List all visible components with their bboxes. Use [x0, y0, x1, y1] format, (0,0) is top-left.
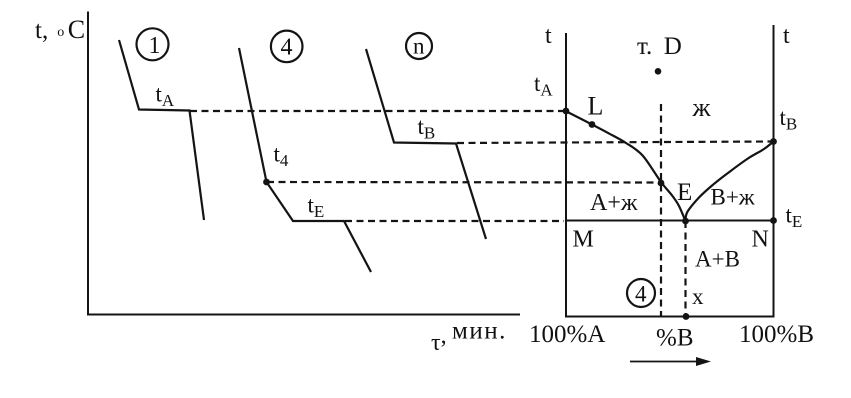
svg-text:tB: tB — [418, 114, 436, 143]
svg-text:τ,: τ, — [431, 323, 447, 356]
point L — [589, 121, 596, 128]
liquidus B side — [685, 142, 773, 221]
svg-text:t,oC: t,oC — [35, 15, 85, 44]
svg-text:tB: tB — [780, 105, 798, 134]
svg-text:L: L — [588, 92, 604, 121]
composition direction arrow — [630, 361, 699, 363]
svg-text:n: n — [413, 34, 425, 59]
svg-text:4: 4 — [281, 35, 293, 61]
svg-text:Е: Е — [677, 179, 692, 206]
svg-text:4: 4 — [635, 282, 647, 307]
svg-text:tE: tE — [308, 193, 325, 222]
svg-text:N: N — [752, 227, 769, 253]
svg-text:tA: tA — [156, 82, 175, 111]
cooling curve 1 — [119, 40, 204, 220]
point E — [682, 218, 689, 225]
svg-text:1: 1 — [149, 33, 161, 59]
svg-text:А+В: А+В — [695, 247, 740, 272]
point D — [655, 68, 662, 75]
svg-text:x: x — [692, 284, 704, 309]
svg-text:В+ж: В+ж — [711, 185, 755, 210]
composition axis (right panel bottom) — [565, 316, 775, 318]
left axis 100%A (right panel) — [565, 33, 567, 317]
svg-text:А+ж: А+ж — [590, 190, 638, 216]
cooling curve n — [366, 49, 486, 239]
svg-text:100%А: 100%А — [529, 321, 605, 348]
svg-text:tA: tA — [534, 71, 553, 100]
curve label circled 4 — [271, 31, 303, 63]
point t4 on curve 4 — [263, 179, 270, 186]
svg-text:t4: t4 — [274, 142, 289, 171]
dashed tie line tB — [457, 142, 772, 144]
svg-text:мин.: мин. — [452, 318, 507, 345]
svg-text:%В: %В — [656, 325, 694, 352]
temperature axis (left panel) — [87, 12, 89, 315]
svg-text:М: М — [573, 227, 594, 253]
point tA — [563, 108, 570, 115]
dashed tie line t4 — [267, 181, 659, 184]
svg-text:ж: ж — [692, 93, 712, 122]
curve label circled 1 — [137, 28, 169, 60]
point liquidus alloy4 — [658, 180, 665, 187]
dashed composition line alloy 4 — [660, 104, 662, 317]
dashed tie line tA — [190, 110, 566, 112]
point x on composition axis — [683, 313, 690, 320]
cooling curve 4 — [239, 48, 371, 272]
circled 4 (alloy number, right panel) — [627, 279, 655, 307]
time axis (left panel) — [87, 314, 520, 316]
svg-text:tE: tE — [786, 203, 803, 232]
svg-text:100%В: 100%В — [739, 321, 814, 348]
point N on right axis — [770, 217, 777, 224]
eutectic line MN — [566, 220, 774, 222]
dashed eutectic composition line — [684, 221, 686, 317]
dashed tie line tE — [345, 220, 564, 222]
point tB — [770, 138, 777, 145]
liquidus A side — [567, 112, 686, 221]
right axis 100%B (right panel) — [773, 25, 775, 317]
curve label circled n — [406, 33, 432, 59]
svg-text:т.D: т.D — [637, 33, 682, 60]
svg-text:t: t — [783, 23, 790, 49]
svg-text:t: t — [545, 23, 552, 49]
